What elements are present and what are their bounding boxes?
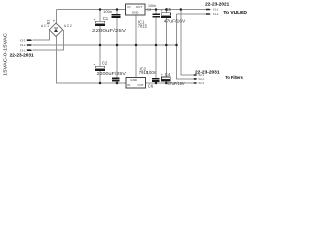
wire capacitor column C5/C4 x=166 — [165, 10, 167, 84]
capacitor C1 2200uF/25V top left — [92, 16, 126, 33]
svg-text:7815: 7815 — [138, 23, 148, 28]
svg-text:+: + — [93, 18, 95, 22]
svg-text:X3-3: X3-3 — [20, 38, 26, 42]
svg-text:X1-1: X1-1 — [213, 8, 219, 12]
connector part number 22-23-2021 top right — [205, 2, 230, 7]
svg-text:47uF/16V: 47uF/16V — [168, 81, 185, 86]
terminal arrow X2-3 — [194, 82, 198, 84]
wire IC1 GND pin to 0V rail — [135, 15, 137, 45]
junction dots top rail — [99, 8, 182, 11]
svg-text:2200uF/25V: 2200uF/25V — [92, 28, 126, 33]
wire 0V rail from X3-2 — [32, 44, 176, 46]
wire +15V drop to X2-1 — [181, 10, 194, 76]
bridge pin label AC2 — [64, 24, 72, 28]
svg-text:C5: C5 — [166, 7, 172, 12]
capacitor 100n top right — [147, 4, 161, 17]
net label To VULED — [223, 10, 247, 15]
net label To Filters — [225, 75, 243, 80]
terminal label X2-1 — [198, 73, 204, 77]
terminal arrow X3-2 — [27, 44, 33, 46]
transformer secondary label 15VAC-0-15VAC — [3, 33, 8, 76]
svg-text:+: + — [161, 9, 163, 13]
terminal arrow X2-2 — [194, 78, 198, 80]
connector part number 22-23-2031 bottom right — [195, 70, 220, 75]
wire capacitor column C1/C2 x=100 — [99, 10, 101, 84]
bridge rectifier B1 diamond — [49, 23, 62, 37]
svg-text:OUT: OUT — [136, 5, 143, 9]
svg-text:+: + — [53, 19, 56, 24]
capacitor 100n bottom left — [112, 77, 120, 81]
svg-text:22-23-2021: 22-23-2021 — [205, 2, 230, 7]
svg-text:X1-2: X1-2 — [213, 12, 219, 16]
terminal label X3-2 — [20, 43, 26, 47]
svg-text:C6: C6 — [148, 83, 154, 88]
svg-text:X2-3: X2-3 — [198, 81, 204, 85]
junction dots -unreg and -15V rails — [99, 82, 168, 85]
terminal label X2-3 — [198, 81, 204, 85]
svg-text:+: + — [93, 63, 95, 67]
voltage regulator IC1 7815 — [126, 4, 146, 15]
svg-text:IN: IN — [127, 83, 130, 87]
IC1 designator and value — [138, 20, 148, 29]
wire IC2 GND pin to 0V rail — [135, 45, 137, 78]
capacitor C5 47uF/16V top right — [161, 7, 186, 24]
svg-text:47uF/16V: 47uF/16V — [164, 18, 186, 23]
wire X3-1 to bridge AC2 — [32, 30, 63, 50]
wire -15V output IC2 OUT to X2-3 — [145, 82, 194, 84]
capacitor 100n top left — [103, 10, 120, 18]
terminal arrow X1-2 — [206, 13, 211, 15]
svg-text:OUT: OUT — [137, 83, 144, 87]
capacitor C4 47uF/16V bottom right — [161, 72, 185, 86]
svg-text:C4: C4 — [165, 72, 171, 77]
svg-text:C3: C3 — [147, 8, 152, 12]
wire capacitor column 100n x=117 — [116, 10, 118, 84]
terminal arrow X3-3 — [27, 39, 33, 41]
wire +15V output rail IC1 OUT to X1-1 — [145, 9, 207, 11]
terminal label X3-3 — [20, 38, 26, 42]
svg-text:AC2: AC2 — [64, 24, 72, 28]
wire -unreg from bridge bottom to IC2 IN — [57, 37, 126, 84]
svg-text:GND: GND — [132, 10, 140, 14]
terminal arrow X2-1 — [194, 74, 198, 76]
wire +unreg top rail to IC1 IN — [57, 9, 126, 11]
wire 0V riser X1-2 to ground rail to X2-2 — [177, 14, 194, 79]
svg-text:22-23-2031: 22-23-2031 — [10, 53, 35, 58]
svg-text:C1: C1 — [103, 16, 109, 21]
terminal arrow X1-1 — [206, 9, 211, 11]
bridge label B1 — [45, 19, 50, 25]
svg-text:15VAC-0-15VAC: 15VAC-0-15VAC — [3, 33, 8, 76]
terminal label X1-1 — [213, 8, 219, 12]
connector part number 22-23-2031 left — [10, 53, 35, 58]
svg-text:To Filters: To Filters — [225, 75, 243, 80]
junction dots 0V rail — [99, 44, 178, 47]
svg-text:GND: GND — [130, 78, 138, 82]
capacitor C2 2200uF/25V bottom left — [93, 60, 126, 76]
svg-text:AC1: AC1 — [41, 24, 49, 28]
terminal label X3-1 — [20, 48, 26, 52]
svg-text:IN: IN — [127, 5, 130, 9]
terminal label X1-2 — [213, 12, 219, 16]
svg-text:X3-1: X3-1 — [20, 48, 26, 52]
terminal arrow X3-1 — [27, 49, 33, 51]
svg-text:C2: C2 — [102, 60, 108, 65]
bridge plus mark — [53, 19, 56, 24]
svg-text:+: + — [161, 73, 163, 77]
svg-text:To VULED: To VULED — [223, 10, 247, 15]
svg-text:X3-2: X3-2 — [20, 43, 26, 47]
wire capacitor column 100n/C6 x=156 — [155, 10, 157, 84]
terminal label X2-2 — [198, 77, 204, 81]
svg-text:2200uF/25V: 2200uF/25V — [97, 71, 127, 76]
capacitor 100n bottom right — [146, 70, 159, 88]
svg-text:100n: 100n — [146, 70, 157, 75]
IC2 designator and value — [139, 66, 149, 75]
svg-text:22-23-2031: 22-23-2031 — [195, 70, 220, 75]
svg-text:100n: 100n — [103, 10, 112, 14]
wire X3-3 to bridge AC1 — [32, 30, 49, 40]
bridge pin label AC1 — [41, 24, 49, 28]
voltage regulator IC2 7915 — [126, 78, 146, 89]
wire +unreg riser from bridge top — [56, 10, 58, 24]
wire 0V to X1-2 — [177, 13, 207, 15]
